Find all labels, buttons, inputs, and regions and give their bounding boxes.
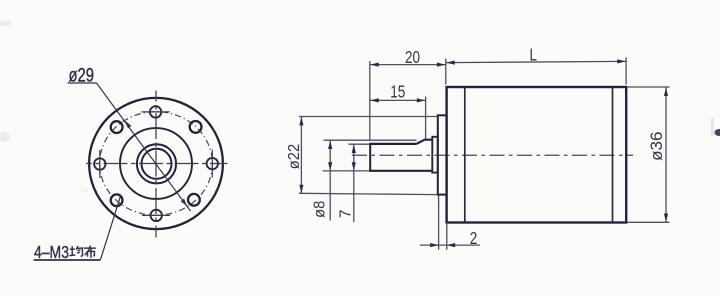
svg-text:ø8: ø8 [311,201,328,218]
svg-text:ø36: ø36 [647,132,666,161]
svg-text:2: 2 [470,229,478,248]
svg-text:L: L [530,46,538,65]
svg-text:4–M3: 4–M3 [34,244,69,263]
svg-text:15: 15 [390,83,405,102]
svg-text:7: 7 [338,209,355,218]
svg-text:ø29: ø29 [68,65,94,86]
svg-text:20: 20 [405,48,420,67]
svg-text:ø22: ø22 [286,144,303,169]
